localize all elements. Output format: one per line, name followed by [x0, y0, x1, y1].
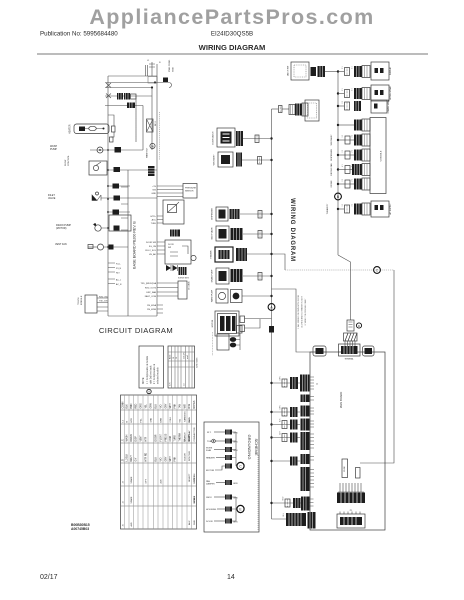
wire feed stubs top: [146, 60, 162, 76]
svg-text:FLAN: FLAN: [206, 449, 212, 452]
junction row7: [270, 295, 272, 297]
svg-text:(MOTOR): (MOTOR): [56, 227, 67, 230]
svg-text:COLOR: COLOR: [184, 352, 186, 359]
svg-text:3 1: 3 1: [342, 135, 344, 138]
svg-text:PUMP: PUMP: [50, 148, 57, 151]
table band2: [122, 433, 191, 441]
varistor block: [178, 267, 190, 280]
svg-text:RS_485B: RS_485B: [147, 309, 157, 311]
wire row3: [240, 213, 272, 215]
node junction N: [151, 81, 156, 88]
svg-text:3 1: 3 1: [352, 135, 354, 138]
svg-text:INLET VALVE: INLET VALVE: [211, 227, 214, 240]
model number: [211, 31, 253, 38]
table right column notes: [183, 411, 196, 525]
UI comms box: [178, 281, 191, 299]
wire console row2: [338, 93, 344, 95]
svg-text:AC_N: AC_N: [116, 283, 122, 286]
pin number labels lower rows: [280, 376, 286, 517]
svg-text:WASH: WASH: [126, 434, 129, 441]
connector dispenser: [230, 209, 240, 219]
svg-text:SW: SW: [168, 247, 171, 249]
svg-text:AC_L: AC_L: [116, 279, 122, 282]
door latch assembly: [212, 128, 236, 147]
inline connector on bus: [269, 326, 274, 333]
connector inlet valve: [114, 196, 121, 201]
svg-text:AUX: AUX: [188, 520, 191, 525]
svg-text:DAMPER: DAMPER: [206, 483, 215, 486]
svg-text:MOTOR: MOTOR: [206, 470, 215, 472]
console row y125: [337, 119, 370, 131]
door switch wires: [145, 242, 165, 256]
inline connector row6: [258, 273, 262, 281]
connector c-row3 small: [345, 102, 350, 110]
vent fan motor M3: [88, 244, 128, 250]
svg-text:HV_AD: HV_AD: [149, 253, 156, 256]
svg-text:DISPENSER: DISPENSER: [331, 149, 333, 161]
node marker A2: [147, 389, 151, 393]
svg-text:BLK: BLK: [127, 404, 129, 409]
touch module UI box: [85, 295, 109, 313]
svg-text:BRN: BRN: [131, 403, 133, 408]
heater element: [74, 124, 109, 134]
svg-text:HEATER: HEATER: [69, 124, 72, 134]
connector door latch: [236, 131, 243, 146]
svg-text:0.75: 0.75: [170, 383, 172, 387]
RS485 stubs: [147, 304, 163, 313]
RFI filter choke L2: [131, 94, 137, 99]
board connector block K1: [337, 493, 365, 504]
doc code: [71, 523, 90, 531]
fuse F1: [112, 126, 116, 132]
svg-text:OZONE: OZONE: [331, 180, 333, 188]
svg-text:COLOR: COLOR: [184, 453, 186, 461]
wire filter row 1: [105, 95, 152, 97]
console row y140: [330, 134, 370, 146]
console row y184: [331, 178, 370, 190]
svg-text:G/Y: G/Y: [136, 457, 138, 461]
svg-text:4 1: 4 1: [352, 165, 354, 168]
ground lead HEATER: [206, 455, 232, 460]
twisted pair crossing X1: [106, 83, 111, 88]
board edge connector J7 tall: [301, 467, 315, 491]
connector inlet wiring: [231, 228, 243, 240]
wire bus row y412: [270, 411, 300, 413]
board top terminal block: [339, 344, 361, 361]
svg-text:1 = Components on models: 1 = Components on models: [146, 355, 149, 384]
svg-text:MOTOR: MOTOR: [212, 319, 214, 327]
ground lead JBOX: [206, 495, 238, 500]
svg-text:3 1: 3 1: [342, 204, 344, 207]
svg-text:WHT: WHT: [170, 456, 172, 462]
relay block on board: [356, 468, 361, 479]
svg-text:AWG: AWG: [169, 354, 172, 359]
svg-text:BLU: BLU: [156, 404, 158, 409]
svg-text:OPTION: OPTION: [194, 473, 196, 482]
svg-text:GRN: GRN: [233, 442, 238, 444]
wire bus row y503: [270, 502, 301, 504]
svg-text:GRY: GRY: [165, 403, 167, 408]
connector b-row3 small: [282, 421, 287, 429]
node dots left bus: [107, 149, 109, 248]
svg-text:AUX: AUX: [130, 522, 133, 527]
svg-text:W.T.: W.T.: [207, 432, 212, 434]
wire to power cord: [282, 108, 289, 110]
wire row7: [242, 295, 272, 297]
svg-text:LOWER SPRAY: LOWER SPRAY: [387, 98, 390, 113]
ground lead WT: [207, 430, 238, 435]
motor pins: [240, 316, 272, 332]
circulation motor block: [212, 311, 239, 336]
svg-text:HTR+: HTR+: [151, 216, 157, 218]
svg-text:PRESSURE: PRESSURE: [185, 188, 197, 190]
svg-text:VENT ASSY: VENT ASSY: [330, 134, 333, 146]
svg-text:CONN: CONN: [122, 401, 124, 408]
connector b-row6 small: [285, 499, 290, 507]
corner junction box: [148, 77, 157, 84]
connector cord blob: [311, 67, 317, 76]
junction row4: [270, 233, 272, 235]
svg-text:NOTES: NOTES: [194, 400, 196, 408]
svg-text:DISPLAY: DISPLAY: [389, 66, 392, 75]
wire terminal right drop: [360, 270, 394, 463]
vent assembly box: [213, 152, 234, 167]
dotted ground lead: [257, 455, 259, 530]
board edge connector J1: [300, 375, 319, 392]
svg-text:FILL2_SOL: FILL2_SOL: [145, 250, 156, 252]
notes legend box: [139, 346, 164, 388]
svg-text:CONSOLE: CONSOLE: [381, 150, 383, 161]
svg-text:1. ALL WIRING SHOWN WITH DOOR: 1. ALL WIRING SHOWN WITH DOOR: [297, 294, 300, 329]
svg-text:DISPENSER: DISPENSER: [212, 208, 214, 220]
board edge connector J6: [301, 454, 315, 464]
base board upper block: [109, 215, 131, 231]
board edge connector J2: [301, 395, 315, 403]
svg-text:SPARE: SPARE: [193, 495, 196, 503]
wire console row6: [338, 208, 344, 210]
ground lead WORK FLANGE: [206, 447, 238, 452]
power supply cord box: [305, 100, 319, 121]
svg-text:2 1: 2 1: [352, 67, 354, 70]
svg-text:CLOSED AND NO WATER IN UNIT: CLOSED AND NO WATER IN UNIT: [301, 295, 304, 328]
heater wiring box: [210, 247, 234, 262]
table band5: [122, 495, 195, 503]
connector power cord half C: [302, 103, 308, 116]
svg-text:W/B: W/B: [184, 404, 186, 409]
wire mid bus: [151, 88, 153, 151]
svg-text:Publication No: 5995684480: Publication No: 5995684480: [40, 31, 118, 38]
grounding scheme label: [247, 435, 259, 460]
svg-text:GND: GND: [151, 193, 156, 195]
svg-text:AC SUPPLY: AC SUPPLY: [389, 203, 392, 215]
connector c-row1 striped: [362, 66, 370, 78]
svg-text:WIRING DIAGRAM: WIRING DIAGRAM: [199, 43, 266, 52]
ground collector E: [232, 497, 237, 521]
board top connector 3: [363, 346, 375, 356]
connector wash pump: [115, 147, 122, 153]
svg-text:TAN: TAN: [178, 404, 181, 409]
connector b-row7 striped wide: [286, 513, 306, 526]
relay K1: [148, 166, 155, 176]
svg-text:4 1: 4 1: [342, 165, 344, 168]
svg-text:A00745B03: A00745B03: [71, 527, 89, 531]
thermistor box: [163, 200, 184, 224]
svg-text:2. WIRE COLORS MAY VARY: 2. WIRE COLORS MAY VARY: [304, 298, 307, 326]
connector c-row6 dark: [354, 204, 362, 215]
pressure sensor: [183, 184, 197, 199]
svg-text:HARNESS: HARNESS: [183, 411, 186, 422]
ground lead HOUSING: [206, 507, 232, 512]
table header row: [122, 400, 195, 408]
svg-text:AppliancePartsPros.com: AppliancePartsPros.com: [89, 5, 374, 29]
connector b-row2 small: [282, 408, 287, 416]
wire wash pump: [90, 149, 143, 151]
svg-text:VIO: VIO: [160, 404, 162, 408]
svg-text:DISP: DISP: [136, 436, 138, 442]
svg-text:2 1: 2 1: [342, 67, 344, 70]
display board box row1: [371, 62, 392, 80]
diode D1: [166, 265, 171, 271]
wire row4: [243, 233, 272, 235]
connector wash wiring: [231, 290, 243, 303]
svg-text:3 1: 3 1: [352, 204, 354, 207]
svg-text:VENT ASSY: VENT ASSY: [213, 154, 216, 166]
door switch board: [165, 240, 196, 264]
svg-text:FLOW: FLOW: [65, 159, 67, 166]
turbidity sensor box: [327, 201, 392, 217]
junction row5: [270, 253, 272, 255]
title rule: [37, 53, 428, 55]
svg-text:SIG: SIG: [179, 419, 181, 423]
connector b-row1 small: [282, 379, 287, 387]
svg-text:GND: GND: [194, 520, 196, 525]
node D: [356, 323, 361, 328]
junction console row6: [337, 208, 339, 210]
connector flow control: [114, 167, 121, 172]
svg-text:FUSE: FUSE: [344, 466, 346, 472]
svg-text:R1_N: R1_N: [116, 268, 122, 270]
junction console row3: [337, 105, 339, 107]
svg-text:WIRING DIAGRAM: WIRING DIAGRAM: [289, 198, 295, 262]
flow control diverter: [89, 161, 157, 175]
console row y169: [330, 163, 370, 176]
wire power cord feed: [272, 108, 279, 110]
connector c-row2 dark: [354, 88, 362, 99]
wire drain row: [108, 185, 130, 187]
junction row6: [270, 275, 272, 277]
ground lead DOOR: [206, 519, 238, 524]
board edge connector J8: [301, 497, 314, 511]
svg-text:RXD_5V0: RXD_5V0: [99, 297, 109, 299]
svg-text:GRN: GRN: [280, 376, 282, 381]
svg-text:WASH RLY: WASH RLY: [146, 147, 149, 158]
svg-text:JBOX: JBOX: [206, 497, 212, 499]
svg-text:WASH PUMP: WASH PUMP: [211, 289, 214, 302]
wire bus row y424: [270, 423, 300, 425]
svg-text:GRN: GRN: [233, 483, 238, 485]
ground lead PAN DAMPER: [206, 480, 238, 486]
board connector block K2: [337, 514, 365, 528]
svg-text:PRESS: PRESS: [165, 433, 167, 441]
lower spray box row3: [371, 98, 390, 113]
thermistor wires: [151, 216, 164, 225]
wash pump motor M1: [97, 147, 103, 153]
pressure sensor wires: [151, 186, 183, 197]
svg-text:DRAIN: DRAIN: [130, 434, 133, 441]
svg-text:PNK: PNK: [175, 456, 177, 461]
board edge connector J9: [308, 512, 316, 529]
svg-text:WHT: WHT: [170, 403, 172, 409]
svg-text:HTR RD: HTR RD: [145, 452, 147, 461]
junction row1: [270, 137, 272, 139]
touch module label: [78, 295, 83, 305]
fuse block on board: [342, 459, 348, 478]
base board pin stubs 2: [108, 279, 122, 287]
connector b-row3 striped: [290, 420, 298, 430]
svg-text:2 1: 2 1: [342, 179, 344, 182]
RFI filter cap C2: [127, 103, 135, 109]
svg-text:TOUCH: TOUCH: [78, 297, 80, 305]
connector vent: [236, 153, 242, 167]
svg-text:SCHEME: SCHEME: [254, 438, 259, 455]
pin number labels console rows: [342, 67, 354, 207]
svg-text:VENT FAN: VENT FAN: [55, 243, 67, 246]
table band3: [122, 452, 176, 461]
wire aux row: [108, 211, 130, 213]
header logo text: [89, 5, 374, 29]
svg-text:SELECT: SELECT: [189, 473, 191, 482]
connector vent fan: [109, 245, 114, 250]
flow control label: [65, 155, 70, 166]
terminal feed component: [347, 320, 354, 331]
svg-text:ROUTING: ROUTING: [189, 451, 191, 461]
wire stub V2: [142, 106, 144, 151]
svg-text:GRN: GRN: [233, 522, 238, 524]
wire bus jog to terminal: [338, 255, 351, 320]
connector b-row6 striped: [293, 498, 301, 508]
base board pin stubs RS: [108, 263, 122, 275]
vent fan label: [55, 243, 67, 246]
connector heater wiring: [236, 248, 247, 261]
svg-text:TXD_(WD5V)SA: TXD_(WD5V)SA: [141, 282, 157, 285]
svg-text:PWR CORD: PWR CORD: [169, 59, 171, 72]
svg-text:GND: GND: [173, 67, 175, 72]
board pin header comb: [338, 483, 364, 492]
svg-text:GRN: GRN: [233, 498, 238, 500]
wire solenoid bracket: [237, 326, 243, 351]
wire inner bus: [121, 170, 128, 316]
connector c-row6 small: [345, 205, 350, 213]
node ground C: [237, 462, 244, 469]
board edge connector J4: [301, 419, 315, 431]
inline connector row1: [255, 135, 259, 143]
svg-text:2 1: 2 1: [342, 89, 344, 92]
line cord entry box: [287, 62, 310, 80]
connector drain pump: [114, 226, 120, 231]
dispenser box: [212, 207, 229, 221]
console row y155: [331, 149, 370, 161]
svg-text:COM: COM: [170, 417, 172, 422]
svg-text:THERM: THERM: [179, 433, 181, 441]
notes fine print: [297, 294, 307, 329]
svg-text:RXD_OUT5: RXD_OUT5: [145, 288, 157, 290]
wire stub V1: [135, 96, 137, 142]
connector b-row4 striped: [290, 433, 298, 443]
svg-text:BRANCH: BRANCH: [183, 432, 186, 442]
UI comms wires: [141, 282, 178, 298]
svg-text:EI24ID30QS5B: EI24ID30QS5B: [211, 31, 253, 38]
triac Q1: [147, 119, 158, 132]
svg-text:2 1: 2 1: [342, 150, 344, 153]
wash pump wiring box: [211, 289, 229, 303]
wire jog to fuse: [108, 115, 114, 137]
svg-text:ACC: ACC: [152, 219, 157, 222]
drain pump label: [56, 224, 71, 230]
svg-text:HTR: HTR: [131, 418, 133, 423]
svg-text:2 1: 2 1: [352, 150, 354, 153]
svg-text:YEL: YEL: [145, 403, 147, 408]
svg-text:RS_485A: RS_485A: [147, 304, 157, 307]
svg-text:HEATER: HEATER: [206, 457, 215, 460]
svg-text:FAST_COM: FAST_COM: [145, 295, 156, 298]
svg-text:VENT: VENT: [140, 435, 142, 442]
connector drain row: [113, 184, 120, 189]
wire row2: [242, 159, 272, 161]
svg-text:TURB: TURB: [175, 435, 177, 442]
svg-text:SURGE MOV: SURGE MOV: [178, 278, 190, 280]
svg-text:GRN: GRN: [233, 433, 238, 435]
connector c-row3 dark: [354, 101, 361, 111]
svg-text:2 1: 2 1: [352, 179, 354, 182]
svg-text:OPT: OPT: [145, 478, 147, 483]
base board label: [133, 221, 137, 269]
svg-text:14: 14: [227, 574, 235, 581]
svg-text:PNK: PNK: [175, 403, 177, 408]
wire bus row y383: [270, 382, 300, 384]
svg-text:18: 18: [173, 357, 175, 359]
svg-text:HEATER: HEATER: [210, 250, 213, 259]
connector power cord half A: [289, 105, 295, 115]
connector b-row1 striped: [290, 377, 298, 389]
drain pump wiring box: [211, 268, 230, 284]
svg-text:LATCH SW: LATCH SW: [287, 66, 290, 76]
svg-text:TURBIDITY: TURBIDITY: [327, 203, 329, 214]
wire dotted vent channel: [159, 112, 161, 160]
svg-text:GND: GND: [151, 417, 153, 422]
svg-text:SPARE: SPARE: [130, 476, 133, 484]
wire gauge table: [168, 346, 199, 388]
svg-text:FLOAT: FLOAT: [159, 434, 162, 442]
board edge connector J5: [301, 432, 315, 450]
svg-text:AUX: AUX: [159, 479, 162, 484]
svg-text:with 3rd level rack: with 3rd level rack: [150, 365, 153, 384]
table band6: [122, 522, 133, 527]
ground lead MOTOR: [206, 464, 232, 473]
svg-text:16: 16: [176, 357, 178, 359]
svg-text:L1 BLK: L1 BLK: [127, 453, 129, 461]
svg-text:selected models: selected models: [157, 367, 160, 384]
svg-text:RED: RED: [136, 403, 138, 408]
node B: [335, 193, 342, 200]
terminal hatched block: [344, 333, 358, 341]
svg-text:TXD_5V0: TXD_5V0: [99, 301, 109, 303]
connector power cord half B: [295, 104, 302, 116]
drain solenoid box: [213, 332, 230, 356]
svg-text:FG_ON: FG_ON: [149, 246, 157, 248]
svg-text:mm2: mm2: [187, 355, 189, 359]
inline connector P1: [279, 106, 283, 113]
svg-text:MAIN: MAIN: [188, 417, 191, 423]
